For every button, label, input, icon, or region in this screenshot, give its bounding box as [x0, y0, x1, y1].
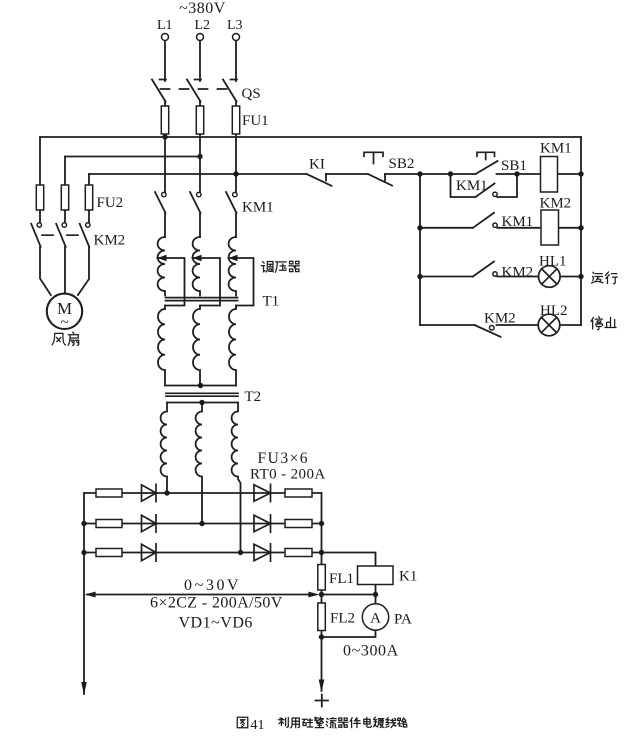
svg-text:KM1: KM1	[502, 214, 534, 230]
svg-text:0~30V: 0~30V	[184, 577, 241, 594]
svg-text:KM1: KM1	[540, 141, 572, 157]
svg-text:PA: PA	[394, 612, 412, 628]
svg-text:K1: K1	[399, 569, 417, 585]
svg-text:FU1: FU1	[242, 113, 269, 129]
svg-text:RT0 - 200A: RT0 - 200A	[250, 467, 326, 483]
svg-text:FU2: FU2	[97, 195, 124, 211]
svg-text:KI: KI	[309, 157, 325, 173]
svg-text:KM2: KM2	[94, 233, 126, 249]
svg-text:KM2: KM2	[484, 311, 516, 327]
svg-text:KM1: KM1	[242, 200, 274, 216]
svg-text:FL2: FL2	[330, 611, 355, 627]
svg-text:KM2: KM2	[540, 196, 572, 212]
svg-text:KM1: KM1	[456, 178, 488, 194]
svg-text:A: A	[370, 611, 381, 627]
svg-text:SB1: SB1	[501, 158, 527, 174]
svg-text:HL1: HL1	[539, 254, 567, 270]
svg-text:~: ~	[60, 315, 68, 331]
svg-text:HL2: HL2	[540, 303, 568, 319]
svg-text:L3: L3	[227, 18, 243, 33]
svg-text:T2: T2	[245, 389, 262, 405]
svg-text:0~300A: 0~300A	[343, 643, 399, 660]
svg-text:6×2CZ - 200A/50V: 6×2CZ - 200A/50V	[150, 595, 283, 612]
svg-text:FL1: FL1	[329, 571, 354, 587]
svg-text:FU3×6: FU3×6	[258, 450, 310, 467]
svg-text:VD1~VD6: VD1~VD6	[179, 615, 253, 632]
svg-text:KM2: KM2	[502, 264, 534, 280]
svg-text:41: 41	[251, 718, 265, 733]
svg-text:~380V: ~380V	[179, 0, 226, 17]
svg-text:SB2: SB2	[389, 156, 415, 172]
svg-text:QS: QS	[242, 86, 261, 102]
svg-text:T1: T1	[263, 294, 280, 310]
svg-text:L1: L1	[157, 18, 173, 33]
svg-text:L2: L2	[195, 18, 211, 33]
